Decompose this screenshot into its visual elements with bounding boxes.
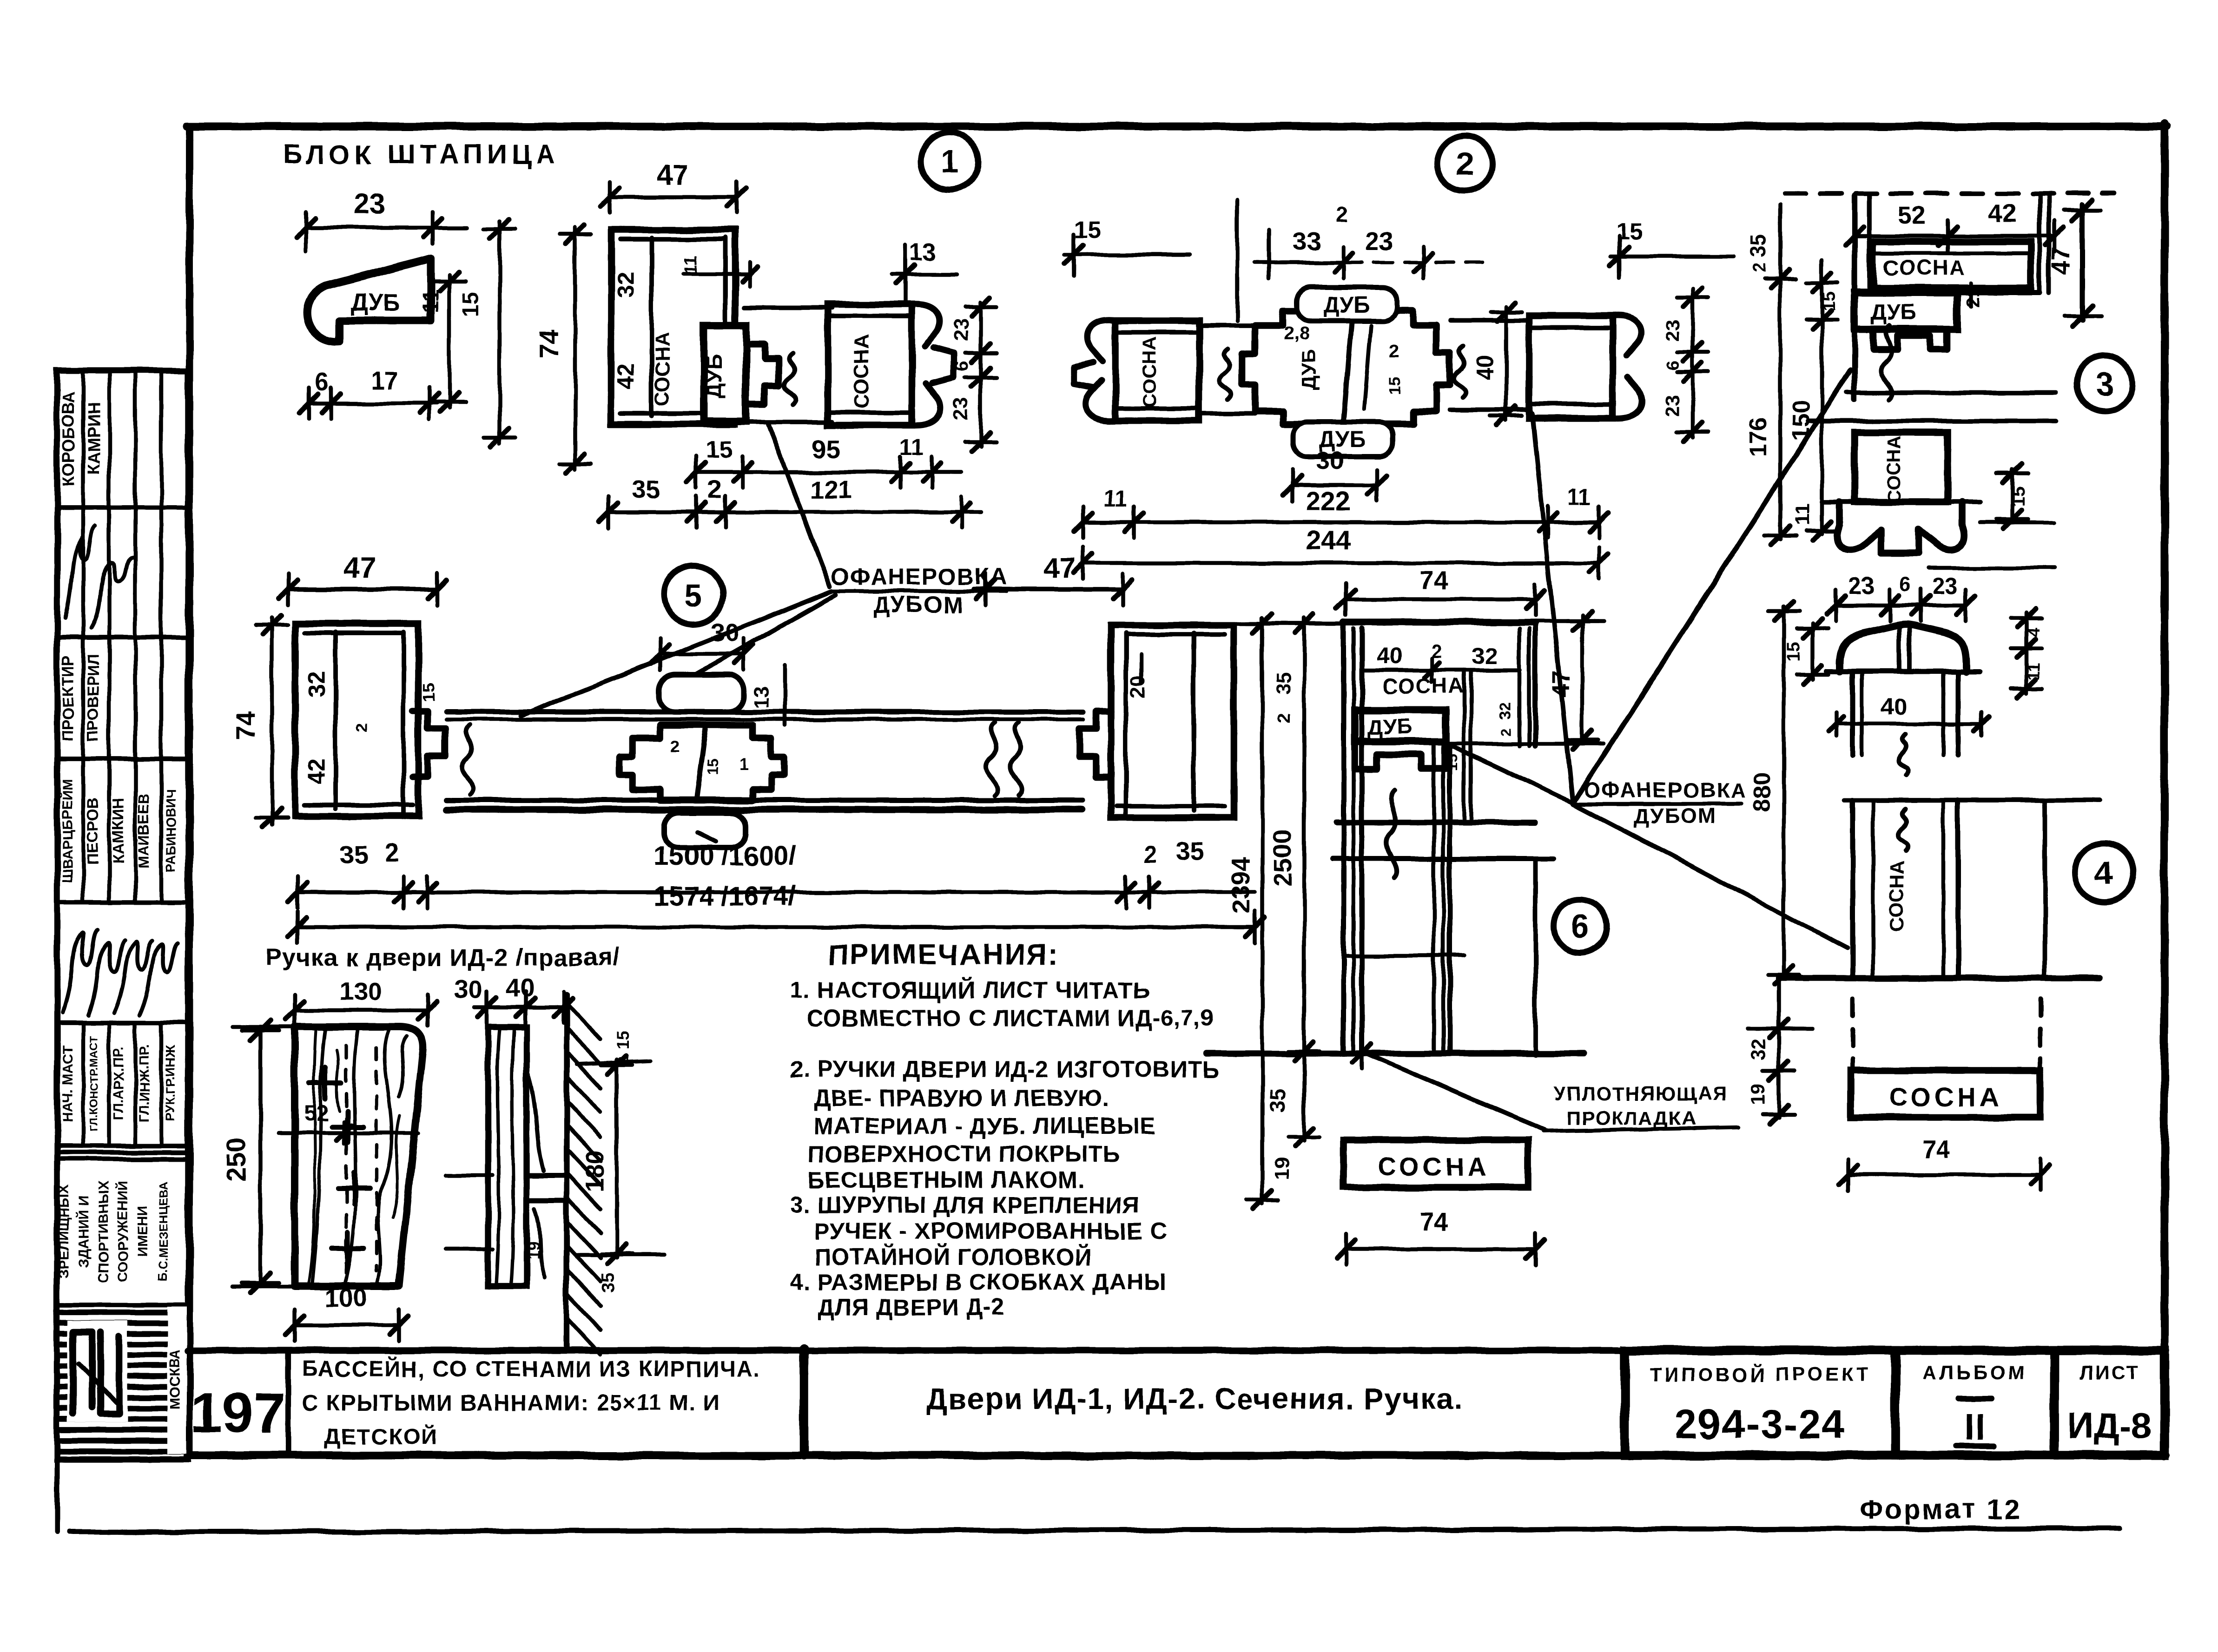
svg-text:32: 32 <box>1747 1039 1769 1060</box>
section4 left small dims 19 32 <box>1747 978 1813 1124</box>
svg-text:52: 52 <box>304 1101 328 1126</box>
svg-text:42: 42 <box>304 758 330 784</box>
svg-text:6: 6 <box>1663 360 1683 370</box>
svg-text:БЛОК ШТАПИЦА: БЛОК ШТАПИЦА <box>283 139 560 170</box>
svg-text:УПЛОТНЯЮЩАЯ: УПЛОТНЯЮЩАЯ <box>1554 1083 1727 1105</box>
svg-text:ДУБОМ: ДУБОМ <box>1633 804 1716 828</box>
svg-text:4: 4 <box>2024 627 2043 637</box>
svg-text:2: 2 <box>1144 841 1157 867</box>
svg-text:2: 2 <box>1389 342 1399 362</box>
title block tipovoy proekt box <box>1625 1350 1895 1455</box>
svg-text:ГЛ.АРХ.ПР.: ГЛ.АРХ.ПР. <box>111 1046 126 1121</box>
section5 vertical dim 74 <box>231 616 288 827</box>
svg-text:ЗРЕЛИЩНЫХ: ЗРЕЛИЩНЫХ <box>57 1184 72 1278</box>
svg-text:ДУБ: ДУБ <box>702 354 726 398</box>
svg-text:32: 32 <box>304 671 330 697</box>
svg-text:СОСНА: СОСНА <box>1884 435 1904 503</box>
sheet title BLOK SHTAPITSA <box>283 139 560 170</box>
svg-text:11: 11 <box>1104 487 1128 512</box>
svg-text:15: 15 <box>1074 217 1101 244</box>
section6 right vertical dim 47 <box>1446 612 1604 749</box>
section6 sosna box bottom <box>1344 1140 1528 1187</box>
section2 right leaf <box>1450 316 1642 418</box>
svg-text:КОРОБОВА: КОРОБОВА <box>59 391 78 487</box>
section2 dim 30 <box>1283 446 1386 501</box>
section2 dub label top <box>1297 287 1397 321</box>
svg-text:35: 35 <box>339 840 367 869</box>
svg-text:1574 /1674/: 1574 /1674/ <box>654 881 796 911</box>
svg-text:СОСНА: СОСНА <box>1889 1082 2002 1112</box>
svg-text:15: 15 <box>1386 377 1404 395</box>
stamp signatures lower <box>63 929 178 1015</box>
svg-text:32: 32 <box>613 271 639 297</box>
svg-text:ШВАРЦБРЕЙМ: ШВАРЦБРЕЙМ <box>59 779 75 882</box>
detail circle 3 <box>2077 355 2132 411</box>
paper bottom edge line <box>57 1459 2119 1532</box>
section6 leaf top block <box>1344 622 1535 1052</box>
section4 bottom heavy line <box>1779 975 2099 981</box>
section3 wall dashed line <box>1785 191 2115 196</box>
svg-text:ИМЕНИ: ИМЕНИ <box>135 1206 150 1257</box>
svg-text:РУК.ГР.ИНЖ: РУК.ГР.ИНЖ <box>163 1045 178 1122</box>
section1 dim 13 <box>892 239 957 302</box>
section2 vertical dim 40 <box>1472 303 1522 425</box>
svg-text:11: 11 <box>681 255 701 275</box>
svg-text:74: 74 <box>1419 566 1448 595</box>
handle dim 130 <box>285 977 437 1029</box>
svg-text:ЛИСТ: ЛИСТ <box>2079 1362 2140 1383</box>
bead bottom dim 6 17 <box>299 366 438 419</box>
svg-text:15: 15 <box>419 683 438 702</box>
title block list box <box>2054 1350 2165 1455</box>
svg-text:15: 15 <box>705 758 721 775</box>
svg-text:35: 35 <box>598 1272 619 1293</box>
svg-text:15: 15 <box>1820 291 1839 311</box>
svg-text:47: 47 <box>1548 671 1575 698</box>
svg-text:КАМКИН: КАМКИН <box>110 797 127 864</box>
svg-text:ПЕСРОВ: ПЕСРОВ <box>84 797 102 865</box>
svg-text:РАБИНОВИЧ: РАБИНОВИЧ <box>164 790 178 873</box>
svg-text:2: 2 <box>1750 263 1769 272</box>
svg-text:11: 11 <box>2024 663 2043 680</box>
svg-text:ГЛ.КОНСТР.МАСТ: ГЛ.КОНСТР.МАСТ <box>88 1036 100 1132</box>
section2 center meeting stiles <box>1242 310 1450 424</box>
section1 small dim 11 <box>681 255 757 286</box>
handle side profile <box>446 1069 567 1278</box>
section5 center tongue bottom <box>664 812 746 848</box>
svg-text:23: 23 <box>1661 395 1683 416</box>
svg-text:35: 35 <box>1266 1088 1291 1112</box>
svg-text:23: 23 <box>1365 227 1393 256</box>
svg-text:СОСНА: СОСНА <box>1139 336 1161 408</box>
title block object name <box>302 1356 760 1449</box>
svg-text:11: 11 <box>1568 485 1591 510</box>
svg-text:30: 30 <box>1316 446 1344 475</box>
handle dim 52 <box>279 1101 418 1144</box>
section2 dim 244 <box>1074 525 1608 579</box>
svg-text:2: 2 <box>1336 203 1348 227</box>
handle screw crosses <box>310 1068 370 1264</box>
svg-text:Двери ИД-1, ИД-2. Сечения. Руч: Двери ИД-1, ИД-2. Сечения. Ручка. <box>926 1382 1463 1415</box>
section5 left jamb box <box>295 624 418 816</box>
svg-text:17: 17 <box>370 366 399 395</box>
svg-text:СОСНА: СОСНА <box>651 332 674 407</box>
svg-text:ДУБ: ДУБ <box>1323 293 1369 317</box>
detail circle 4 <box>2075 843 2133 902</box>
svg-text:23: 23 <box>354 188 386 220</box>
svg-text:ПРОКЛАДКА: ПРОКЛАДКА <box>1566 1107 1697 1129</box>
svg-text:15: 15 <box>2008 486 2029 507</box>
section3 lower dims 11 15 <box>1791 464 2054 568</box>
svg-text:СОВМЕСТНО С ЛИСТАМИ ИД-6,7,9: СОВМЕСТНО С ЛИСТАМИ ИД-6,7,9 <box>806 1005 1214 1031</box>
uplotnyayushchaya prokladka label <box>1366 1054 1738 1131</box>
section5 vertical dim 13 <box>750 665 785 725</box>
svg-text:294-3-24: 294-3-24 <box>1675 1401 1846 1447</box>
stamp names column <box>59 779 178 882</box>
svg-text:СОСНА: СОСНА <box>1886 861 1908 932</box>
svg-text:Ручка к двери ИД-2 /правая/: Ручка к двери ИД-2 /правая/ <box>265 944 620 971</box>
stamp Moscow logo block with hatch <box>61 1307 187 1454</box>
svg-text:23: 23 <box>1848 573 1875 599</box>
svg-text:30: 30 <box>711 618 739 647</box>
svg-text:19: 19 <box>1747 1084 1769 1106</box>
svg-text:Формат 12: Формат 12 <box>1859 1494 2021 1525</box>
svg-text:15: 15 <box>458 292 483 316</box>
section2 right vertical dims 23 6 23 <box>1661 288 1709 441</box>
section2 left leaf <box>1074 320 1255 421</box>
section6 bottom heavy line <box>1206 1038 1584 1069</box>
svg-text:52: 52 <box>1897 201 1926 230</box>
svg-text:40: 40 <box>1881 694 1907 720</box>
section5 center cross profile <box>619 725 785 800</box>
svg-text:ДУБ: ДУБ <box>1871 300 1917 325</box>
section4 cap dims 15 4 11 <box>1783 609 2043 698</box>
svg-text:ПРОЕКТИР: ПРОЕКТИР <box>59 655 77 741</box>
svg-text:47: 47 <box>657 159 689 191</box>
section6 dub bar <box>1355 710 1460 770</box>
notes heading <box>827 939 1059 971</box>
svg-text:КАМРИН: КАМРИН <box>84 403 103 474</box>
section3 dub piece <box>1855 283 2040 349</box>
svg-text:ОФАНЕРОВКА: ОФАНЕРОВКА <box>1584 778 1747 802</box>
svg-text:197: 197 <box>191 1381 285 1444</box>
svg-text:СОСНА: СОСНА <box>850 335 873 409</box>
svg-text:ДУБ: ДУБ <box>350 289 400 316</box>
svg-text:47: 47 <box>1044 552 1076 584</box>
svg-text:РУЧЕК - ХРОМИРОВАННЫЕ С: РУЧЕК - ХРОМИРОВАННЫЕ С <box>814 1218 1167 1244</box>
svg-text:ДВЕ- ПРАВУЮ И ЛЕВУЮ.: ДВЕ- ПРАВУЮ И ЛЕВУЮ. <box>813 1085 1109 1111</box>
svg-text:СОСНА: СОСНА <box>1883 256 1966 280</box>
svg-text:2: 2 <box>1456 146 1474 182</box>
title block drawing name <box>926 1382 1463 1415</box>
svg-text:15: 15 <box>613 1031 632 1049</box>
section4 dim 23 6 23 <box>1827 573 1975 621</box>
svg-text:1. НАСТОЯЩИЙ ЛИСТ ЧИТАТЬ: 1. НАСТОЯЩИЙ ЛИСТ ЧИТАТЬ <box>790 977 1150 1003</box>
section2 dim 33 2 23 <box>1237 200 1483 321</box>
svg-text:40: 40 <box>505 974 534 1002</box>
svg-text:11: 11 <box>1791 504 1814 526</box>
svg-text:33: 33 <box>1293 227 1321 256</box>
svg-text:35: 35 <box>1272 672 1295 695</box>
notes text <box>790 977 1220 1320</box>
svg-text:35: 35 <box>1746 233 1770 257</box>
svg-text:3: 3 <box>2096 366 2114 402</box>
leader line from section1 to ofanerovka label <box>768 424 830 586</box>
section2 dim 222 <box>1074 485 1608 538</box>
svg-text:Б.С.МЕЗЕНЦЕВА: Б.С.МЕЗЕНЦЕВА <box>156 1181 170 1282</box>
svg-text:4. РАЗМЕРЫ В СКОБКАХ ДАНЫ: 4. РАЗМЕРЫ В СКОБКАХ ДАНЫ <box>790 1269 1167 1295</box>
section4 long bars <box>1844 800 2099 976</box>
svg-text:МАЙВЕЕВ: МАЙВЕЕВ <box>135 793 152 869</box>
sheet border frame <box>187 124 2167 1456</box>
svg-text:ДУБ: ДУБ <box>1298 349 1320 390</box>
svg-text:42: 42 <box>1988 199 2016 228</box>
bead vertical dims 11 15 <box>419 219 515 447</box>
svg-text:4: 4 <box>2095 855 2113 891</box>
stamp signatures upper <box>65 525 133 627</box>
svg-text:2. РУЧКИ ДВЕРИ ИД-2 ИЗГОТОВИТЬ: 2. РУЧКИ ДВЕРИ ИД-2 ИЗГОТОВИТЬ <box>790 1056 1220 1082</box>
svg-text:СОСНА: СОСНА <box>1382 674 1465 698</box>
svg-text:20: 20 <box>1126 676 1149 698</box>
section1 right vertical dims 23 6 23 <box>950 297 997 451</box>
title block album box <box>1895 1350 2054 1455</box>
svg-text:176: 176 <box>1745 417 1772 457</box>
section6 leaf lower block <box>1344 746 1535 1055</box>
section6 lower dims 35 19 <box>1266 1053 1320 1180</box>
svg-text:244: 244 <box>1306 525 1351 555</box>
section1 vertical dim 74 <box>535 225 591 473</box>
svg-text:ГЛ.ИНЖ.ПР.: ГЛ.ИНЖ.ПР. <box>137 1044 152 1123</box>
svg-text:МАТЕРИАЛ - ДУБ. ЛИЦЕВЫЕ: МАТЕРИАЛ - ДУБ. ЛИЦЕВЫЕ <box>813 1113 1156 1139</box>
svg-text:6: 6 <box>1571 908 1590 945</box>
svg-text:47: 47 <box>2046 247 2075 275</box>
svg-text:ПРОВЕРИЛ: ПРОВЕРИЛ <box>85 653 102 742</box>
section1 bottom dim 35 2 121 <box>599 475 981 528</box>
svg-text:32: 32 <box>1497 702 1514 720</box>
handle dim 250 <box>221 1020 297 1293</box>
svg-text:35: 35 <box>1175 836 1204 865</box>
section5 dim 47 left <box>279 552 446 605</box>
section1 jamb box <box>611 230 735 424</box>
svg-text:42: 42 <box>613 363 639 389</box>
svg-text:ПОТАЙНОЙ ГОЛОВКОЙ: ПОТАЙНОЙ ГОЛОВКОЙ <box>814 1244 1092 1270</box>
svg-text:ДЛЯ ДВЕРИ Д-2: ДЛЯ ДВЕРИ Д-2 <box>818 1294 1005 1320</box>
svg-text:32: 32 <box>1472 643 1498 669</box>
section3 top sosna piece <box>1855 195 2049 400</box>
svg-text:2: 2 <box>708 475 722 504</box>
svg-text:15: 15 <box>1783 641 1804 662</box>
svg-text:47: 47 <box>344 552 376 584</box>
format note text <box>1859 1494 2021 1525</box>
section5 center tongue top <box>659 675 744 712</box>
svg-text:2: 2 <box>385 838 399 867</box>
section3 dim 52 42 <box>1845 199 2064 252</box>
svg-text:19: 19 <box>524 1241 543 1259</box>
handle dim 30 40 <box>454 974 573 1023</box>
svg-text:СПОРТИВНЫХ: СПОРТИВНЫХ <box>96 1181 111 1283</box>
ofanerovka dubom label middle <box>521 564 1008 716</box>
stamp institute name block <box>57 1181 170 1283</box>
svg-text:2: 2 <box>1275 713 1294 723</box>
svg-text:23: 23 <box>950 398 972 421</box>
svg-text:ИД-8: ИД-8 <box>2068 1405 2152 1446</box>
svg-text:ДЕТСКОЙ: ДЕТСКОЙ <box>324 1424 438 1449</box>
section5 bottom dim 1574 <box>288 881 1264 943</box>
section1 dim 47 <box>601 159 746 213</box>
section6 dim 74 top <box>1337 566 1545 615</box>
section1 bottom dim 15 95 11 <box>687 434 961 488</box>
section4 dim 74 bottom <box>1839 1135 2050 1191</box>
handle title <box>265 944 620 971</box>
svg-text:121: 121 <box>810 475 852 504</box>
svg-text:МОСКВА: МОСКВА <box>167 1349 183 1409</box>
section4 handle cap profile <box>1827 625 1980 672</box>
section2 dim 15 left <box>1064 217 1190 276</box>
title block frame <box>188 1349 2166 1455</box>
section4 sosna box <box>1851 1071 2040 1117</box>
svg-text:ТИПОВОЙ ПРОЕКТ: ТИПОВОЙ ПРОЕКТ <box>1649 1363 1871 1385</box>
svg-text:6: 6 <box>1899 573 1910 596</box>
svg-text:40: 40 <box>1472 354 1498 380</box>
left stamp table frame <box>57 370 188 1459</box>
handle front view <box>295 1027 423 1286</box>
svg-text:95: 95 <box>812 434 840 463</box>
section1 leaf sosna block <box>828 304 954 426</box>
section5 right jamb box <box>1079 625 1234 818</box>
svg-text:2394: 2394 <box>1226 856 1255 914</box>
svg-text:1: 1 <box>941 144 959 180</box>
svg-text:5: 5 <box>685 577 703 613</box>
svg-text:23: 23 <box>1661 319 1683 341</box>
svg-text:180: 180 <box>580 1150 609 1192</box>
svg-text:74: 74 <box>231 711 261 741</box>
svg-text:15: 15 <box>706 436 733 463</box>
svg-text:222: 222 <box>1306 486 1351 516</box>
svg-text:ДУБОМ: ДУБОМ <box>873 592 963 618</box>
stamp labels proektir proveril <box>59 653 102 742</box>
svg-text:АЛЬБОМ: АЛЬБОМ <box>1923 1362 2027 1383</box>
svg-text:ПРИМЕЧАНИЯ:: ПРИМЕЧАНИЯ: <box>827 939 1059 971</box>
svg-text:23: 23 <box>1932 573 1958 599</box>
svg-text:11: 11 <box>900 435 924 460</box>
svg-text:С КРЫТЫМИ ВАННАМИ: 25×11 М. И: С КРЫТЫМИ ВАННАМИ: 25×11 М. И <box>302 1391 720 1415</box>
section3 lower sosna piece <box>1822 432 1980 553</box>
svg-text:ОФАНЕРОВКА: ОФАНЕРОВКА <box>831 564 1008 590</box>
stamp labels positions <box>60 1036 178 1132</box>
svg-text:100: 100 <box>325 1283 368 1312</box>
svg-text:II: II <box>1964 1406 1986 1448</box>
svg-text:13: 13 <box>910 239 936 265</box>
detail circle 6 <box>1554 900 1607 953</box>
svg-text:19: 19 <box>1270 1158 1293 1180</box>
svg-text:2: 2 <box>670 737 680 756</box>
detail circle 5 <box>664 565 723 625</box>
detail circle 1 <box>921 132 978 190</box>
svg-text:23: 23 <box>950 319 972 342</box>
svg-text:СООРУЖЕНИЙ: СООРУЖЕНИЙ <box>115 1181 131 1282</box>
section2 dim 15 right <box>1610 218 1734 278</box>
bead profile dim 23 <box>297 188 467 251</box>
svg-text:6: 6 <box>951 361 972 371</box>
handle wall line with hatch <box>567 994 601 1354</box>
svg-text:74: 74 <box>535 329 563 358</box>
section5 bottom dim 1500 <box>288 836 1255 908</box>
svg-text:11: 11 <box>419 290 443 313</box>
handle side view board <box>488 1027 527 1286</box>
ofanerovka dubom label right <box>1447 370 1850 948</box>
svg-text:250: 250 <box>221 1137 251 1182</box>
svg-text:БЕСЦВЕТНЫМ ЛАКОМ.: БЕСЦВЕТНЫМ ЛАКОМ. <box>808 1167 1085 1193</box>
svg-text:6: 6 <box>315 367 329 396</box>
detail circle 2 <box>1437 136 1493 191</box>
svg-text:40: 40 <box>1377 643 1403 669</box>
svg-text:2500: 2500 <box>1268 829 1297 886</box>
section1 dub insert <box>702 325 779 421</box>
svg-text:3. ШУРУПЫ ДЛЯ КРЕПЛЕНИЯ: 3. ШУРУПЫ ДЛЯ КРЕПЛЕНИЯ <box>790 1192 1140 1218</box>
svg-text:30: 30 <box>454 975 482 1004</box>
section5 rails <box>446 712 1083 810</box>
svg-text:74: 74 <box>1921 1135 1950 1164</box>
svg-text:ПОВЕРХНОСТИ ПОКРЫТЬ: ПОВЕРХНОСТИ ПОКРЫТЬ <box>808 1141 1120 1167</box>
section4 dashed projection lines <box>1853 999 2040 1069</box>
svg-text:ЗДАНИЙ И: ЗДАНИЙ И <box>76 1195 92 1268</box>
section2 dub label bottom <box>1293 422 1393 456</box>
svg-text:13: 13 <box>750 686 772 709</box>
glazing bead profile DUB <box>307 258 431 342</box>
svg-text:35: 35 <box>632 475 660 504</box>
section5 left leaf step profile <box>413 665 445 777</box>
stamp names Korobova Kamrin <box>59 391 103 487</box>
section5 dim 47 right <box>974 552 1132 605</box>
title block sheet number 197 <box>191 1381 285 1444</box>
section4 neck bars <box>1829 671 1989 775</box>
svg-text:БАССЕЙН, СО СТЕНАМИ ИЗ КИРПИЧА: БАССЕЙН, СО СТЕНАМИ ИЗ КИРПИЧА. <box>302 1356 760 1382</box>
section4 dim 880 <box>1749 602 1800 984</box>
svg-text:2: 2 <box>1498 728 1514 736</box>
svg-text:1500 /1600/: 1500 /1600/ <box>654 841 796 871</box>
handle dim 180 <box>576 1031 665 1293</box>
svg-text:74: 74 <box>1419 1207 1448 1236</box>
section6 dim 74 bottom <box>1337 1207 1545 1265</box>
section1 rails to leaf <box>744 308 832 422</box>
svg-text:2: 2 <box>353 723 371 732</box>
svg-text:2,8: 2,8 <box>1284 323 1310 343</box>
svg-text:21: 21 <box>1963 287 1983 308</box>
stamp column dividers <box>83 370 161 1146</box>
svg-text:НАЧ. МАСТ: НАЧ. МАСТ <box>60 1046 75 1122</box>
svg-text:880: 880 <box>1749 773 1775 811</box>
svg-text:СОСНА: СОСНА <box>1377 1152 1491 1181</box>
section3 left dims 35 2 15 176 150 <box>1745 204 1839 545</box>
section6 break lines <box>1333 790 1553 878</box>
section6 mid vertical pair <box>1464 670 1471 823</box>
handle dim 100 <box>285 1283 408 1341</box>
section3 vertical dim 47 <box>2046 200 2101 326</box>
section6 tall dims 2394 2500 <box>1226 614 1357 1209</box>
svg-text:2: 2 <box>615 1056 632 1065</box>
svg-text:130: 130 <box>339 977 382 1006</box>
svg-text:ДУБ: ДУБ <box>1367 715 1412 739</box>
section3 mid lines <box>1808 325 2056 421</box>
svg-text:1: 1 <box>739 755 748 774</box>
section5 dim 30 <box>651 618 753 670</box>
